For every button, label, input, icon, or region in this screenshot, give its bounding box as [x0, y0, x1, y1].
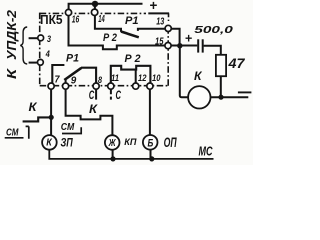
svg-text:9: 9: [71, 75, 77, 86]
svg-text:СМ: СМ: [6, 126, 19, 138]
svg-text:КП: КП: [124, 137, 136, 148]
svg-text:С: С: [116, 90, 122, 102]
svg-text:500,0: 500,0: [194, 25, 233, 36]
svg-text:К: К: [46, 138, 52, 149]
svg-text:4: 4: [45, 49, 51, 60]
svg-text:ПК5: ПК5: [40, 13, 63, 27]
svg-text:К: К: [194, 69, 203, 83]
svg-text:8: 8: [98, 75, 103, 86]
svg-text:12: 12: [138, 73, 147, 84]
svg-text:МС: МС: [199, 143, 213, 158]
svg-text:К: К: [89, 102, 99, 116]
svg-text:Р1: Р1: [66, 53, 79, 65]
svg-text:Ж: Ж: [108, 138, 116, 149]
svg-text:ЗП: ЗП: [61, 137, 74, 149]
svg-text:7: 7: [55, 75, 60, 86]
svg-text:УПДК-2: УПДК-2: [5, 10, 19, 60]
svg-text:Р 2: Р 2: [125, 53, 141, 65]
svg-text:3: 3: [47, 34, 52, 45]
svg-text:Б: Б: [148, 137, 154, 149]
svg-text:15: 15: [155, 36, 164, 47]
svg-text:С: С: [89, 90, 95, 102]
svg-text:К: К: [5, 67, 19, 79]
svg-text:+: +: [150, 0, 158, 13]
svg-text:13: 13: [156, 16, 164, 27]
svg-text:11: 11: [111, 73, 119, 84]
svg-text:14: 14: [98, 13, 105, 25]
svg-text:Р1: Р1: [125, 15, 139, 27]
svg-text:СМ: СМ: [61, 122, 75, 133]
svg-text:10: 10: [152, 73, 161, 84]
svg-text:К: К: [29, 100, 39, 114]
svg-text:Р 2: Р 2: [103, 32, 117, 44]
svg-text:47: 47: [227, 56, 246, 71]
svg-text:+: +: [185, 31, 192, 45]
svg-text:ОП: ОП: [164, 135, 177, 150]
svg-text:16: 16: [72, 14, 80, 26]
